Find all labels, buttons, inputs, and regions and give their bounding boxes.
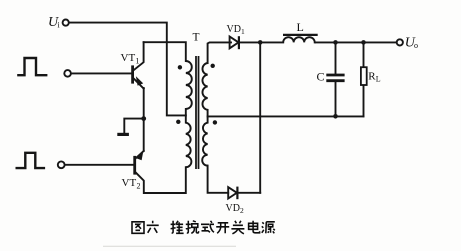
svg-text:L: L [376, 74, 381, 83]
svg-text:1: 1 [241, 27, 245, 36]
svg-text:VD: VD [226, 203, 240, 214]
svg-text:VD: VD [227, 24, 241, 35]
svg-text:VT: VT [121, 52, 136, 64]
svg-text:C: C [317, 70, 325, 84]
svg-text:L: L [297, 20, 304, 34]
svg-text:T: T [193, 31, 200, 43]
svg-text:2: 2 [240, 206, 244, 215]
svg-text:o: o [414, 41, 418, 50]
svg-text:VT: VT [122, 177, 137, 189]
svg-text:i: i [58, 21, 61, 30]
svg-text:1: 1 [136, 57, 140, 66]
svg-text:2: 2 [137, 181, 141, 190]
